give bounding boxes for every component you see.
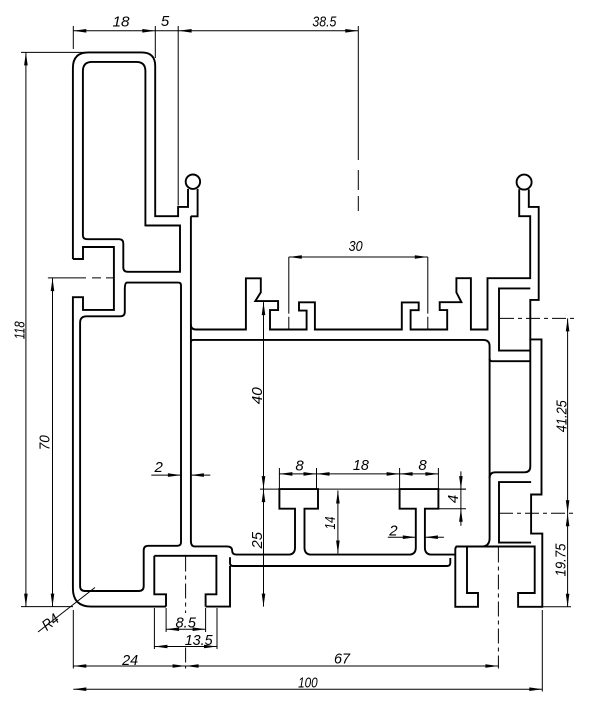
arrows dim 30 (289, 255, 302, 259)
svg-text:24: 24 (121, 652, 138, 669)
dimension 118: line and extensions (21, 52, 86, 606)
arrows dim 25 (262, 489, 266, 502)
arrows dim 8/18/8 (279, 472, 292, 476)
wire: gasket slot left (C-slot opening left) (73, 247, 166, 607)
svg-text:13.5: 13.5 (185, 632, 214, 649)
dimension 100: line and right extension (73, 610, 542, 692)
arrows dim 4 (459, 476, 463, 489)
svg-text:14: 14 (322, 517, 339, 530)
svg-text:19.75: 19.75 (553, 543, 570, 577)
wire: 41.25 chamber right wall and bottom (490, 339, 531, 478)
arrows dim 70 (51, 278, 55, 291)
leader line R4 (38, 588, 95, 633)
wire: upper latch slot cavity (C-slot opening right) (499, 288, 530, 350)
dimension 8.5: line and extensions (166, 608, 206, 632)
centerline: 70 reference y=277.9 (48, 277, 114, 279)
wire: right pin, outer right edge with latch recess, right wall down to bottom-right corner (456, 189, 542, 606)
svg-text:38.5: 38.5 (312, 13, 337, 30)
arrows dim 19.75 (566, 513, 570, 526)
svg-text:R4: R4 (39, 611, 63, 635)
arrows dim 41.25 (566, 318, 570, 331)
dimension 30: line (289, 256, 428, 258)
dimension 24/67: line and left extension (73, 610, 498, 669)
arrows dim 8.5 (166, 627, 179, 631)
dimension 4: line and extensions (439, 471, 467, 525)
arrows dim 40 (262, 302, 266, 315)
pin head circle left (186, 175, 200, 189)
svg-text:18: 18 (353, 457, 370, 474)
centerline: right latch lower y=513.2 (499, 512, 577, 514)
arrows dim 2 right (403, 535, 416, 539)
dimension 40 and 25: vertical line x=263.5 (263, 302, 265, 606)
dimension 2 left: line pieces (151, 474, 210, 476)
svg-text:2: 2 (388, 522, 398, 539)
centerline: right bead slot x=427.8 (427, 257, 429, 329)
pin head circle right (517, 175, 532, 190)
arrows dim 24/67 (73, 664, 86, 668)
svg-text:8: 8 (418, 457, 427, 474)
svg-text:25: 25 (249, 531, 266, 549)
dimension 14: line (337, 491, 339, 554)
arrows dim 2 left (168, 473, 181, 477)
wire: bottom-right channel left block and mouth lips (455, 547, 478, 607)
projection line of rail heads top y=489.1 (260, 488, 466, 490)
centerline: right latch upper y=318.4 (500, 317, 577, 319)
wire: bottom-left gasket channel box (154, 556, 216, 607)
wire: bottom faces next to bottom-left channel (206, 566, 230, 607)
arrows dim 14 (336, 491, 340, 504)
svg-text:8: 8 (295, 458, 304, 475)
wire: left pin right side and foot (191, 189, 198, 216)
centerline: bottom-right channel x=498.4 (497, 548, 499, 669)
wire: middle chamber bottom web underside and 41.25 chamber left wall (191, 340, 490, 547)
wire: shelf underside / middle chamber ceiling right part into 2mm wall left face (80, 283, 181, 591)
arrows dim 18/5/38.5 (73, 29, 86, 33)
svg-text:67: 67 (334, 650, 351, 667)
wire: glazing web top surface with beads teeth and slots (191, 189, 530, 329)
dimension 70: line (52, 278, 54, 606)
svg-text:2: 2 (154, 459, 164, 476)
arrows dim 100 (73, 687, 86, 691)
wire: middle chamber ceiling, shelf, upper chamber inner contour (83, 62, 180, 272)
dimension 18/5/38.5 top: line and extensions (73, 26, 358, 206)
wire: 41.25 chamber top wall (490, 359, 531, 361)
svg-text:100: 100 (298, 675, 318, 692)
svg-text:18: 18 (113, 13, 131, 30)
dimension 13.5: line and extensions (154, 608, 217, 649)
profile outer contour: top-left tube, glass channel, gasket slot, left wall, bottom-left with R4 corner (73, 52, 188, 259)
wire: lower latch slot cavity (C-slot opening right) (499, 482, 531, 542)
centerline: bottom-left channel x=185.6 (185, 557, 187, 669)
svg-text:5: 5 (161, 13, 170, 30)
svg-text:70: 70 (37, 435, 54, 451)
svg-text:8.5: 8.5 (175, 615, 196, 632)
centerline: top 38.5 axis x=358.3 (357, 26, 359, 211)
svg-text:4: 4 (445, 495, 462, 503)
arrows dim 13.5 (154, 645, 167, 649)
svg-text:30: 30 (349, 238, 364, 255)
svg-text:118: 118 (11, 321, 28, 339)
dimension 2 right: line pieces (388, 536, 444, 538)
wire: glass channel underside wall (146, 224, 180, 226)
dimension 19.75: line and bottom extension (543, 513, 571, 607)
svg-text:40: 40 (249, 387, 266, 405)
wire: bottom band ceiling (web underside) (230, 557, 450, 566)
dimension 8/18/8: line and extensions (279, 468, 438, 489)
centerline: left bead slot x=288.8 (288, 257, 290, 329)
dimension 41.25: line (567, 318, 569, 513)
arrows dim 118 (24, 52, 28, 65)
wire: wall between lower-left chamber and middle chamber (2mm), right face (191, 216, 455, 554)
svg-text:41.25: 41.25 (554, 400, 571, 433)
